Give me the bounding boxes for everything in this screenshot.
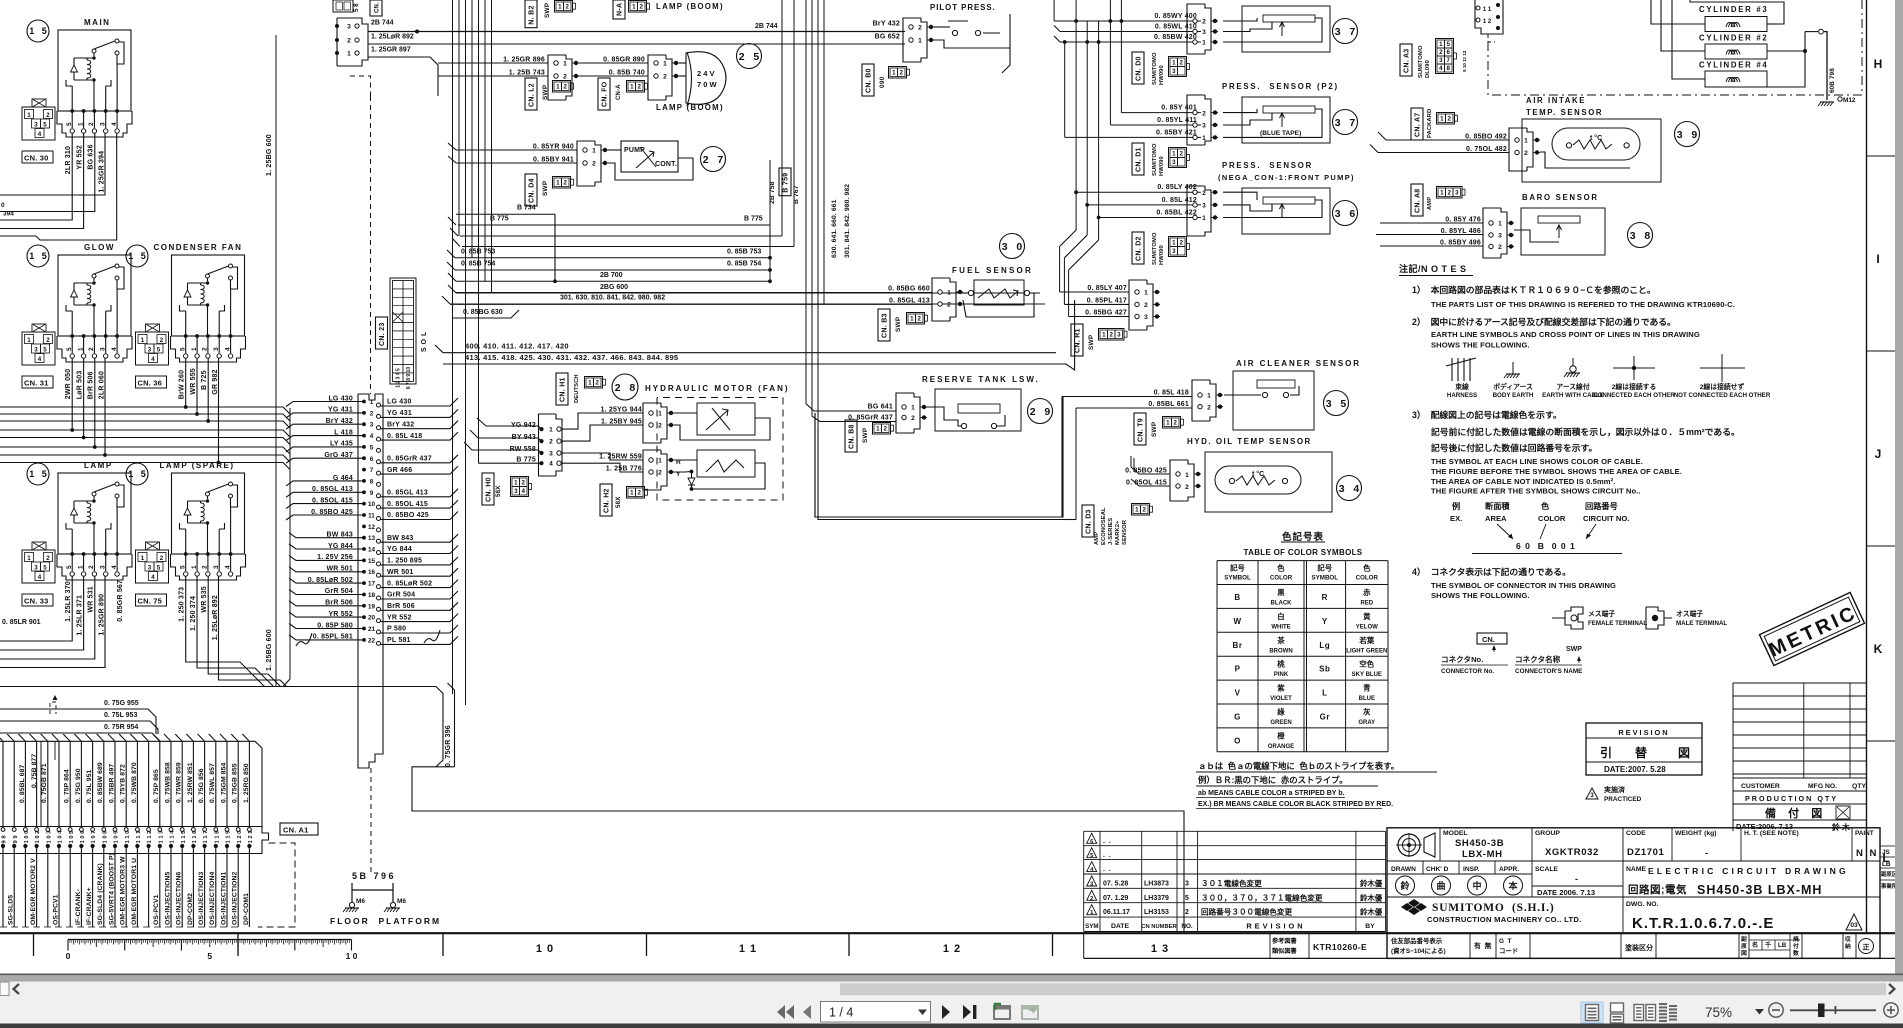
svg-text:B: B	[1234, 593, 1240, 602]
svg-text:2: 2	[160, 337, 164, 344]
circle 38	[1628, 223, 1653, 248]
svg-text:J-SERIES: J-SERIES	[1108, 518, 1114, 545]
lamp circuit LAMP(BOOM)	[438, 52, 726, 106]
svg-text:BrY 432: BrY 432	[387, 421, 414, 428]
svg-text:0. 75L 953: 0. 75L 953	[104, 712, 137, 719]
svg-text:DZ1701: DZ1701	[1627, 847, 1665, 858]
svg-text:SWP: SWP	[1088, 334, 1095, 350]
svg-text:16: 16	[368, 569, 376, 576]
svg-text:1 1 2: 1 1 2	[147, 831, 153, 844]
svg-text:0. 85LøR 502: 0. 85LøR 502	[387, 580, 432, 587]
svg-text:THE SYMBOL AT EACH LINE SHOWS: THE SYMBOL AT EACH LINE SHOWS COLOR OF C…	[1431, 457, 1643, 466]
svg-text:1: 1	[549, 427, 553, 434]
wires reserve tank	[806, 404, 896, 411]
svg-text:PILOT PRESS.: PILOT PRESS.	[930, 3, 996, 12]
svg-text:Br: Br	[1233, 641, 1243, 650]
svg-text:KTR10260-E: KTR10260-E	[1313, 942, 1367, 952]
svg-text:SUMITOMO: SUMITOMO	[1152, 52, 1158, 85]
svg-text:SHOWS THE FOLLOWING.: SHOWS THE FOLLOWING.	[1431, 591, 1530, 600]
relay LAMP (SPARE)	[126, 461, 246, 580]
svg-text:回路番号: 回路番号	[1585, 501, 1618, 511]
svg-text:DP-COM1: DP-COM1	[243, 893, 250, 925]
svg-text:1. 25BG 600: 1. 25BG 600	[266, 134, 273, 176]
svg-text:3 6: 3 6	[1335, 208, 1356, 220]
svg-text:0. 85B 753: 0. 85B 753	[727, 248, 761, 255]
svg-text:1 2 3 4 5: 1 2 3 4 5	[396, 368, 402, 388]
svg-text:NOT CONNECTED EACH OTHER: NOT CONNECTED EACH OTHER	[1674, 392, 1771, 399]
svg-text:1: 1	[910, 316, 914, 323]
svg-text:1: 1	[347, 51, 351, 58]
svg-text:束線: 束線	[1455, 382, 1469, 391]
svg-text:2: 2	[1179, 240, 1183, 247]
vertical bus sensors	[1053, 0, 1055, 21]
svg-text:0. 75GM 854: 0. 75GM 854	[220, 762, 227, 803]
svg-text:2: 2	[658, 470, 662, 477]
connector CN.FO	[598, 78, 610, 110]
svg-text:N-A: N-A	[617, 3, 624, 16]
svg-text:2WR 050: 2WR 050	[65, 369, 72, 400]
svg-text:PRODUCTION QTY: PRODUCTION QTY	[1745, 794, 1838, 803]
svg-text:0. 85BY 421: 0. 85BY 421	[1156, 129, 1197, 136]
svg-text:1 0: 1 0	[346, 951, 358, 961]
connector CN.R1 3pin	[1060, 280, 1160, 330]
svg-text:鈴 木: 鈴 木	[1832, 822, 1850, 832]
svg-text:綠: 綠	[1277, 708, 1285, 717]
svg-text:CN. D0: CN. D0	[1136, 56, 1143, 81]
svg-text:0. 75P 865: 0. 75P 865	[153, 769, 160, 803]
svg-text:5: 5	[43, 565, 47, 572]
svg-text:1 1 5: 1 1 5	[181, 830, 187, 844]
svg-text:N. B2: N. B2	[529, 5, 536, 24]
svg-text:6 0 B 0 0 1: 6 0 B 0 0 1	[1516, 541, 1576, 551]
svg-text:1: 1	[27, 112, 31, 119]
svg-text:TEMP. SENSOR: TEMP. SENSOR	[1526, 108, 1603, 117]
wire labels CN. 30	[77, 144, 106, 192]
svg-text:2 9: 2 9	[1030, 406, 1051, 418]
svg-text:0. 75R 954: 0. 75R 954	[104, 724, 138, 731]
svg-text:YG 431: YG 431	[387, 410, 412, 417]
svg-text:1 1 0: 1 1 0	[125, 831, 131, 844]
svg-text:1. 25GR 897: 1. 25GR 897	[371, 47, 411, 54]
svg-text:0: 0	[1, 202, 5, 209]
svg-text:1） 本回路図の部品表はＫＴＲ１０６９０−Ｃを参照のこと。: 1） 本回路図の部品表はＫＴＲ１０６９０−Ｃを参照のこと。	[1412, 284, 1656, 295]
svg-text:1 1 9: 1 1 9	[226, 830, 232, 844]
svg-text:DATE: DATE	[1111, 923, 1129, 930]
svg-text:CONNECTED EACH OTHER: CONNECTED EACH OTHER	[1593, 392, 1675, 399]
svg-text:GRAY: GRAY	[1358, 720, 1375, 726]
connector CN.H2	[600, 484, 612, 516]
svg-text:CN. A3: CN. A3	[1404, 49, 1411, 74]
svg-text:DP-COM2: DP-COM2	[187, 893, 194, 925]
svg-text:実施済: 実施済	[1604, 785, 1626, 794]
svg-text:B 759: B 759	[783, 173, 790, 193]
svg-text:1: 1	[1202, 215, 1206, 222]
svg-text:CN. FO: CN. FO	[602, 81, 609, 107]
svg-text:色: 色	[1277, 564, 1285, 573]
svg-text:4: 4	[151, 356, 155, 363]
svg-text:0. 85GrR 437: 0. 85GrR 437	[387, 455, 432, 462]
svg-text:WHITE: WHITE	[1271, 624, 1290, 630]
wire labels CN. 75	[190, 586, 219, 640]
svg-text:2 4 V: 2 4 V	[697, 69, 715, 78]
svg-text:鈴木優: 鈴木優	[1360, 879, 1383, 888]
svg-text:2: 2	[918, 25, 922, 32]
svg-text:0. 85GR 567: 0. 85GR 567	[117, 580, 124, 622]
svg-text:1 0 2: 1 0 2	[35, 831, 41, 844]
wires CN.H0 to motor connectors	[561, 413, 643, 472]
svg-text:CN. B0: CN. B0	[866, 68, 873, 93]
svg-text:1: 1	[556, 180, 560, 187]
vertical bus right of center	[805, 0, 807, 404]
svg-text:I: I	[1876, 252, 1879, 266]
svg-text:PRESS. SENSOR (P2): PRESS. SENSOR (P2)	[1222, 82, 1339, 91]
wires CN.A1	[0, 734, 254, 927]
svg-text:色記号表: 色記号表	[1282, 531, 1324, 543]
frame right border	[1866, 0, 1868, 933]
svg-text:2: 2	[637, 490, 641, 497]
svg-text:1: 1	[141, 555, 145, 562]
svg-text:SWP: SWP	[542, 180, 549, 196]
svg-text:2: 2	[637, 84, 641, 91]
svg-text:1 0 0: 1 0 0	[24, 831, 30, 844]
svg-text:BARO SENSOR: BARO SENSOR	[1522, 193, 1599, 202]
svg-text:CN. A1: CN. A1	[283, 826, 309, 835]
svg-text:THE FIGURE AFTER THE SYMBOL SH: THE FIGURE AFTER THE SYMBOL SHOWS CIRCUI…	[1431, 487, 1641, 496]
svg-text:CN. D1: CN. D1	[1136, 147, 1143, 172]
svg-text:1: 1	[1202, 40, 1206, 47]
svg-text:22: 22	[368, 637, 376, 644]
svg-text:3: 3	[1439, 57, 1443, 64]
svg-text:8: 8	[1446, 65, 1450, 72]
svg-text:ECONOSEAL: ECONOSEAL	[1101, 507, 1107, 545]
svg-text:0. 85LY 407: 0. 85LY 407	[1087, 285, 1127, 292]
svg-text:3 7: 3 7	[1335, 117, 1356, 129]
svg-text:2: 2	[549, 439, 553, 446]
svg-text:Gr: Gr	[1320, 713, 1330, 722]
svg-text:MODEL: MODEL	[1443, 830, 1468, 837]
svg-text:17: 17	[368, 581, 376, 588]
svg-text:SWP: SWP	[895, 316, 902, 332]
svg-text:BG 641: BG 641	[868, 404, 893, 411]
svg-text:0. 75L 951: 0. 75L 951	[86, 770, 93, 803]
svg-text:OS-PCV1: OS-PCV1	[52, 894, 59, 925]
svg-text:18: 18	[368, 592, 376, 599]
svg-text:DEUTSCH: DEUTSCH	[574, 374, 580, 403]
svg-text:0. 85OL 415: 0. 85OL 415	[387, 501, 428, 508]
svg-text:BROWN: BROWN	[1269, 648, 1292, 654]
svg-text:ELECTRIC CIRCUIT DRAWING: ELECTRIC CIRCUIT DRAWING	[1648, 866, 1849, 876]
svg-text:1: 1	[370, 399, 374, 406]
svg-text:SWP: SWP	[1151, 421, 1158, 437]
svg-text:有 無: 有 無	[1474, 941, 1492, 950]
svg-text:APPR.: APPR.	[1499, 866, 1519, 873]
svg-text:MFG NO.: MFG NO.	[1808, 783, 1837, 790]
svg-text:青: 青	[1363, 684, 1371, 693]
svg-text:-: -	[1575, 874, 1578, 884]
svg-text:2: 2	[563, 180, 567, 187]
svg-text:4: 4	[151, 574, 155, 581]
wire labels CN. 36	[190, 368, 219, 395]
svg-text:1 1 7: 1 1 7	[203, 831, 209, 844]
svg-text:0. 75B 877: 0. 75B 877	[31, 754, 38, 788]
svg-text:1. 25RW 851: 1. 25RW 851	[187, 762, 194, 803]
svg-text:(資オS−104による): (資オS−104による)	[1391, 946, 1446, 955]
cable squiggle right	[424, 630, 440, 643]
wire trunk left of 22pin	[289, 408, 291, 679]
svg-text:60B 798: 60B 798	[1829, 68, 1836, 93]
svg-text:THE SYMBOL OF CONNECTOR IN THI: THE SYMBOL OF CONNECTOR IN THIS DRAWING	[1431, 581, 1616, 590]
svg-text:3 8: 3 8	[1630, 230, 1651, 242]
svg-text:LH3379: LH3379	[1144, 895, 1169, 902]
svg-text:6: 6	[370, 456, 374, 463]
svg-text:引: 引	[1600, 746, 1612, 760]
svg-text:2: 2	[1447, 190, 1451, 197]
svg-text:替: 替	[1635, 745, 1648, 760]
svg-text:付: 付	[1793, 942, 1799, 950]
svg-text:2B 744: 2B 744	[371, 20, 394, 27]
svg-text:AREA: AREA	[1485, 514, 1507, 523]
svg-text:0. 75WB 858: 0. 75WB 858	[164, 762, 171, 803]
svg-text:1 1 3: 1 1 3	[158, 830, 164, 844]
connector CN.A8	[1411, 184, 1423, 216]
bottom info strip	[1084, 934, 1895, 958]
symbol earth with cable	[1572, 358, 1574, 366]
svg-text:0. 75WL 857: 0. 75WL 857	[209, 763, 216, 803]
svg-text:1 5: 1 5	[128, 469, 146, 479]
svg-text:0. 75WR 859: 0. 75WR 859	[176, 762, 183, 803]
dashed arrow box	[50, 702, 56, 714]
svg-text:4: 4	[38, 131, 42, 138]
svg-text:AMP: AMP	[1094, 532, 1100, 545]
svg-text:1. 25BG 600: 1. 25BG 600	[266, 629, 273, 671]
svg-text:3: 3	[148, 347, 152, 354]
svg-text:3: 3	[100, 347, 107, 351]
svg-text:2: 2	[563, 84, 567, 91]
svg-text:YR 552: YR 552	[77, 145, 84, 170]
svg-text:正: 正	[1863, 944, 1870, 952]
svg-text:1 / 4: 1 / 4	[829, 1006, 853, 1020]
connector CN.B2 fragment	[525, 0, 537, 28]
svg-text:1: 1	[663, 61, 667, 68]
svg-text:CHK' D: CHK' D	[1426, 866, 1449, 873]
connector CN.A3	[1400, 44, 1412, 76]
svg-text:アース線付: アース線付	[1556, 382, 1589, 391]
svg-text:B 725: B 725	[201, 370, 208, 390]
connector CN=A fragment	[613, 0, 625, 19]
pump controller	[448, 141, 693, 186]
circle 39	[1675, 122, 1700, 147]
svg-text:SWP: SWP	[1566, 646, 1582, 653]
svg-text:原: 原	[1741, 942, 1747, 950]
svg-text:類似図書: 類似図書	[1271, 947, 1297, 955]
svg-text:NO.: NO.	[1181, 923, 1193, 930]
svg-text:CODE: CODE	[1626, 830, 1646, 837]
symbol female terminal	[1552, 607, 1647, 629]
svg-text:0. 75G 856: 0. 75G 856	[198, 768, 205, 803]
svg-text:0. 75GB 855: 0. 75GB 855	[232, 763, 239, 803]
svg-text:REVISION: REVISION	[1246, 922, 1305, 931]
svg-text:DATE 2006. 7.13: DATE 2006. 7.13	[1537, 888, 1595, 897]
svg-text:記号: 記号	[1317, 564, 1332, 573]
sensor feed wires	[1054, 21, 1201, 219]
svg-text:2: 2	[1185, 484, 1189, 491]
svg-text:12: 12	[368, 524, 376, 531]
svg-text:例: 例	[1452, 501, 1460, 511]
svg-text:1: 1	[191, 565, 198, 569]
svg-text:黄: 黄	[1363, 612, 1371, 621]
svg-text:1: 1	[592, 148, 596, 155]
svg-text:BY: BY	[1365, 923, 1375, 930]
svg-text:13: 13	[368, 535, 376, 542]
svg-text:1: 1	[27, 555, 31, 562]
svg-text:3: 3	[34, 122, 38, 129]
svg-text:LAMP (SPARE): LAMP (SPARE)	[160, 461, 235, 470]
svg-text:1: 1	[1440, 190, 1444, 197]
svg-text:SG-5VRT4 (BOOST P): SG-5VRT4 (BOOST P)	[108, 853, 115, 925]
svg-text:HW090: HW090	[1159, 245, 1165, 265]
connector fragment top	[333, 0, 353, 12]
svg-text:14: 14	[368, 547, 376, 554]
svg-text:CYLINDER #3: CYLINDER #3	[1699, 5, 1768, 14]
connector CN.D0	[1132, 52, 1144, 84]
svg-text:1: 1	[77, 122, 84, 126]
svg-text:2: 2	[1173, 420, 1177, 427]
label CN.A1	[280, 823, 318, 835]
svg-text:2: 2	[1439, 49, 1443, 56]
svg-text:SWP: SWP	[542, 84, 549, 100]
svg-text:4） コネクタ表示は下記の通りである。: 4） コネクタ表示は下記の通りである。	[1412, 566, 1571, 577]
svg-text:0. 85LY 402: 0. 85LY 402	[1157, 184, 1197, 191]
svg-text:BODY EARTH: BODY EARTH	[1493, 392, 1534, 399]
svg-text:3 0: 3 0	[1002, 241, 1023, 253]
svg-text:3 4: 3 4	[1339, 483, 1360, 495]
svg-text:PRESS. SENSOR: PRESS. SENSOR	[1222, 161, 1313, 170]
wire labels CN. 31	[77, 371, 106, 400]
svg-text:SWP: SWP	[544, 2, 551, 18]
svg-text:1 2 0: 1 2 0	[237, 831, 243, 844]
symbol male terminal	[1646, 607, 1727, 629]
circle 29	[1028, 399, 1053, 424]
svg-text:AMP: AMP	[1427, 197, 1433, 210]
svg-text:4: 4	[521, 488, 525, 495]
svg-text:2線は接続する: 2線は接続する	[1612, 382, 1657, 391]
svg-text:2: 2	[947, 302, 951, 309]
svg-text:REVISION: REVISION	[1618, 728, 1669, 737]
revision table	[1084, 831, 1386, 931]
svg-text:8: 8	[370, 478, 374, 485]
svg-text:M6: M6	[356, 898, 365, 905]
svg-text:2: 2	[202, 347, 209, 351]
svg-text:4: 4	[111, 565, 118, 569]
svg-text:CONNECTOR'S NAME: CONNECTOR'S NAME	[1515, 668, 1583, 675]
revision stamp 引替図	[1586, 723, 1702, 775]
svg-text:若葉: 若葉	[1359, 636, 1374, 645]
ground FLOOR PLATFORM 5B 796	[330, 871, 441, 926]
svg-text:2 5: 2 5	[739, 51, 760, 63]
svg-text:2: 2	[899, 70, 903, 77]
svg-text:0. 75WB 870: 0. 75WB 870	[131, 762, 138, 803]
svg-text:2: 2	[1109, 332, 1113, 339]
svg-text:3: 3	[1202, 29, 1206, 36]
svg-text:BLUE: BLUE	[1359, 696, 1375, 702]
connector 22-pin body	[358, 394, 383, 768]
svg-text:5: 5	[1446, 41, 1450, 48]
svg-text:BrR 506: BrR 506	[87, 371, 94, 399]
svg-text:2: 2	[1144, 302, 1148, 309]
hyd oil temp sensor	[1125, 437, 1332, 512]
svg-text:Sb: Sb	[1319, 665, 1330, 674]
svg-text:CUSTOMER: CUSTOMER	[1741, 783, 1780, 790]
svg-text:INSP.: INSP.	[1463, 866, 1480, 873]
svg-text:色: 色	[1541, 501, 1550, 511]
connector CN.L2	[525, 78, 537, 110]
svg-text:N N: N N	[1856, 848, 1878, 859]
svg-text:1 1 4: 1 1 4	[170, 830, 176, 844]
svg-text:1 0 4: 1 0 4	[58, 830, 64, 844]
bottom dark strip	[0, 1024, 1903, 1028]
svg-text:1 1 1: 1 1 1	[136, 830, 142, 844]
svg-text:0. 85L 412: 0. 85L 412	[1162, 197, 1197, 204]
dashed wire below	[370, 768, 372, 872]
svg-text:3: 3	[1172, 159, 1176, 166]
svg-text:CN. 75: CN. 75	[138, 597, 163, 606]
connector CN. 30	[22, 99, 55, 163]
bus 1.25BG 600	[275, 35, 277, 687]
svg-text:EX.) BR MEANS CABLE COLOR BLAC: EX.) BR MEANS CABLE COLOR BLACK STRIPED …	[1198, 801, 1393, 808]
svg-text:SYMBOL: SYMBOL	[1224, 575, 1251, 582]
svg-text:LAMP: LAMP	[84, 461, 113, 470]
connector CN. 33	[22, 542, 55, 606]
svg-text:3: 3	[148, 565, 152, 572]
svg-text:RED: RED	[1360, 601, 1373, 607]
toolbar page nav	[777, 1002, 1038, 1023]
svg-text:PRACTICED: PRACTICED	[1604, 796, 1642, 803]
svg-text:1: 1	[1166, 420, 1170, 427]
svg-text:WEIGHT (kg): WEIGHT (kg)	[1675, 830, 1717, 837]
svg-text:SG-SLD4 (CRANK): SG-SLD4 (CRANK)	[97, 863, 104, 925]
svg-text:QTY: QTY	[1852, 783, 1866, 790]
svg-text:2: 2	[595, 380, 599, 387]
svg-text:PUMP: PUMP	[624, 147, 645, 154]
svg-text:. .: . .	[1103, 852, 1111, 859]
svg-text:0. 85L 418: 0. 85L 418	[1154, 390, 1189, 397]
svg-text:OS-INJECTION4: OS-INJECTION4	[209, 871, 216, 925]
svg-text:090: 090	[879, 76, 886, 88]
svg-text:納: 納	[1845, 942, 1851, 950]
svg-text:BW 843: BW 843	[387, 535, 414, 542]
svg-text:1: 1	[947, 290, 951, 297]
svg-text:LH3153: LH3153	[1144, 909, 1169, 916]
connector CN.A7	[1411, 108, 1423, 140]
svg-text:1: 1	[563, 61, 567, 68]
svg-text:灰: 灰	[1363, 708, 1371, 717]
svg-text:3: 3	[1498, 233, 1502, 240]
svg-text:1: 1	[1207, 393, 1211, 400]
svg-text:2: 2	[565, 4, 569, 11]
svg-text:CN. B3: CN. B3	[882, 313, 889, 338]
connector CN.A1 body	[0, 827, 269, 854]
svg-text:副: 副	[1741, 935, 1747, 943]
svg-text:B 775: B 775	[490, 216, 509, 223]
svg-text:2: 2	[88, 565, 95, 569]
svg-text:AIR CLEANER SENSOR: AIR CLEANER SENSOR	[1236, 359, 1361, 368]
svg-text:例）ＢＲ:黒の下地に 赤のストライプ。: 例）ＢＲ:黒の下地に 赤のストライプ。	[1198, 775, 1348, 785]
svg-text:CN. H2: CN. H2	[604, 488, 611, 513]
svg-text:07. 5.28: 07. 5.28	[1103, 881, 1128, 888]
svg-text:BG 652: BG 652	[875, 34, 900, 41]
svg-text:1: 1	[892, 70, 896, 77]
svg-text:AIR INTAKE: AIR INTAKE	[1526, 96, 1586, 105]
